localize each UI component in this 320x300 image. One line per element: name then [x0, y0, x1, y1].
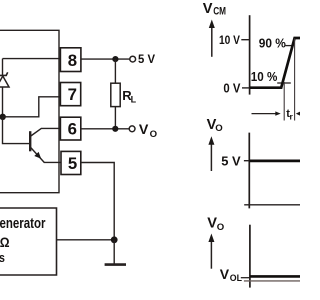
svg-text:6: 6	[68, 120, 77, 139]
wire pin 8 to 5V terminal	[81, 58, 130, 60]
node A junction dot	[0, 114, 6, 120]
transistor Q1 emitter	[31, 148, 62, 163]
tick 10V level	[241, 39, 249, 41]
arrow VCM axis direction	[211, 26, 213, 57]
node 5V junction dot	[112, 56, 118, 62]
svg-text:Ω: Ω	[0, 234, 10, 250]
svg-text:O: O	[215, 123, 223, 134]
transistor Q1 emitter arrow	[34, 152, 41, 159]
svg-text:O: O	[150, 129, 158, 140]
svg-text:V: V	[220, 266, 230, 282]
dimension arrow tr left	[252, 113, 277, 115]
pin 6 box	[60, 117, 80, 140]
tick 5V level	[244, 160, 249, 162]
svg-text:10 V: 10 V	[219, 33, 241, 47]
tick 0V level	[242, 87, 250, 89]
svg-text:0 V: 0 V	[223, 80, 240, 95]
pin 8 box	[60, 48, 81, 72]
tick 90 percent	[285, 45, 293, 47]
tick 10 percent	[277, 82, 291, 84]
svg-text:CM: CM	[213, 6, 226, 18]
axis VCM vertical	[249, 15, 251, 94]
svg-text:5 V: 5 V	[138, 53, 155, 66]
svg-text:r: r	[290, 111, 294, 121]
svg-text:enerator: enerator	[0, 215, 46, 232]
svg-text:V: V	[203, 1, 213, 17]
wire to ground	[113, 240, 115, 264]
svg-text:90 %: 90 %	[259, 35, 287, 50]
pin 7 box	[60, 83, 80, 106]
pin 5 box	[61, 151, 81, 174]
axis time bottom (thin gray)	[244, 280, 300, 282]
terminal VO open circle	[129, 126, 135, 132]
node VO junction dot	[112, 126, 118, 132]
svg-text:8: 8	[68, 51, 77, 70]
svg-text:O: O	[217, 222, 225, 233]
axis time middle	[244, 204, 300, 206]
node ground junction dot	[111, 236, 118, 243]
waveform VO high	[249, 160, 300, 163]
wire cathode rail to pin 8	[3, 58, 63, 60]
wire pin 6 to VO terminal	[81, 128, 129, 130]
svg-text:V: V	[139, 122, 149, 138]
arrow VO axis direction bottom	[210, 240, 212, 269]
axis VO vertical bottom	[249, 225, 251, 288]
tick VOL level	[241, 277, 250, 279]
diode D1 cathode bar	[0, 72, 8, 75]
diode D1 triangle	[0, 76, 9, 87]
svg-text:5 V: 5 V	[221, 154, 241, 169]
wire diode top	[2, 59, 4, 75]
marker line 90 percent crossing	[294, 39, 296, 121]
arrow VO axis direction middle	[210, 143, 212, 172]
svg-text:7: 7	[68, 85, 77, 104]
wire generator to ground node	[57, 239, 115, 241]
transistor Q1 collector	[31, 128, 61, 136]
resistor RL body	[111, 83, 120, 106]
waveform VOL low (dashed look)	[250, 275, 300, 278]
wire diode anode down	[2, 87, 4, 117]
wire node to transistor base	[3, 117, 30, 144]
axis VO vertical middle	[248, 133, 250, 209]
wire node to pin 7	[3, 97, 62, 117]
terminal 5V open circle	[130, 56, 136, 62]
svg-text:OL: OL	[230, 273, 242, 284]
IC package outline (cropped at left)	[0, 30, 59, 192]
svg-text:L: L	[131, 95, 137, 105]
pulse generator box (cropped at left)	[0, 208, 57, 275]
ground symbol bar	[105, 263, 126, 266]
svg-text:5: 5	[68, 154, 77, 173]
waveform VCM ramp	[250, 38, 300, 88]
dimension arrow tr right (cropped)	[296, 111, 301, 115]
marker line 10 percent crossing	[283, 82, 285, 121]
svg-text:V: V	[207, 216, 217, 232]
svg-text:10 %: 10 %	[251, 69, 278, 84]
wire junction to RL	[114, 59, 116, 83]
transistor Q1 base bar	[29, 131, 31, 151]
wire RL to VO node	[114, 107, 116, 129]
wire pin 5 down to generator node	[81, 163, 114, 240]
svg-text:s: s	[0, 250, 5, 265]
